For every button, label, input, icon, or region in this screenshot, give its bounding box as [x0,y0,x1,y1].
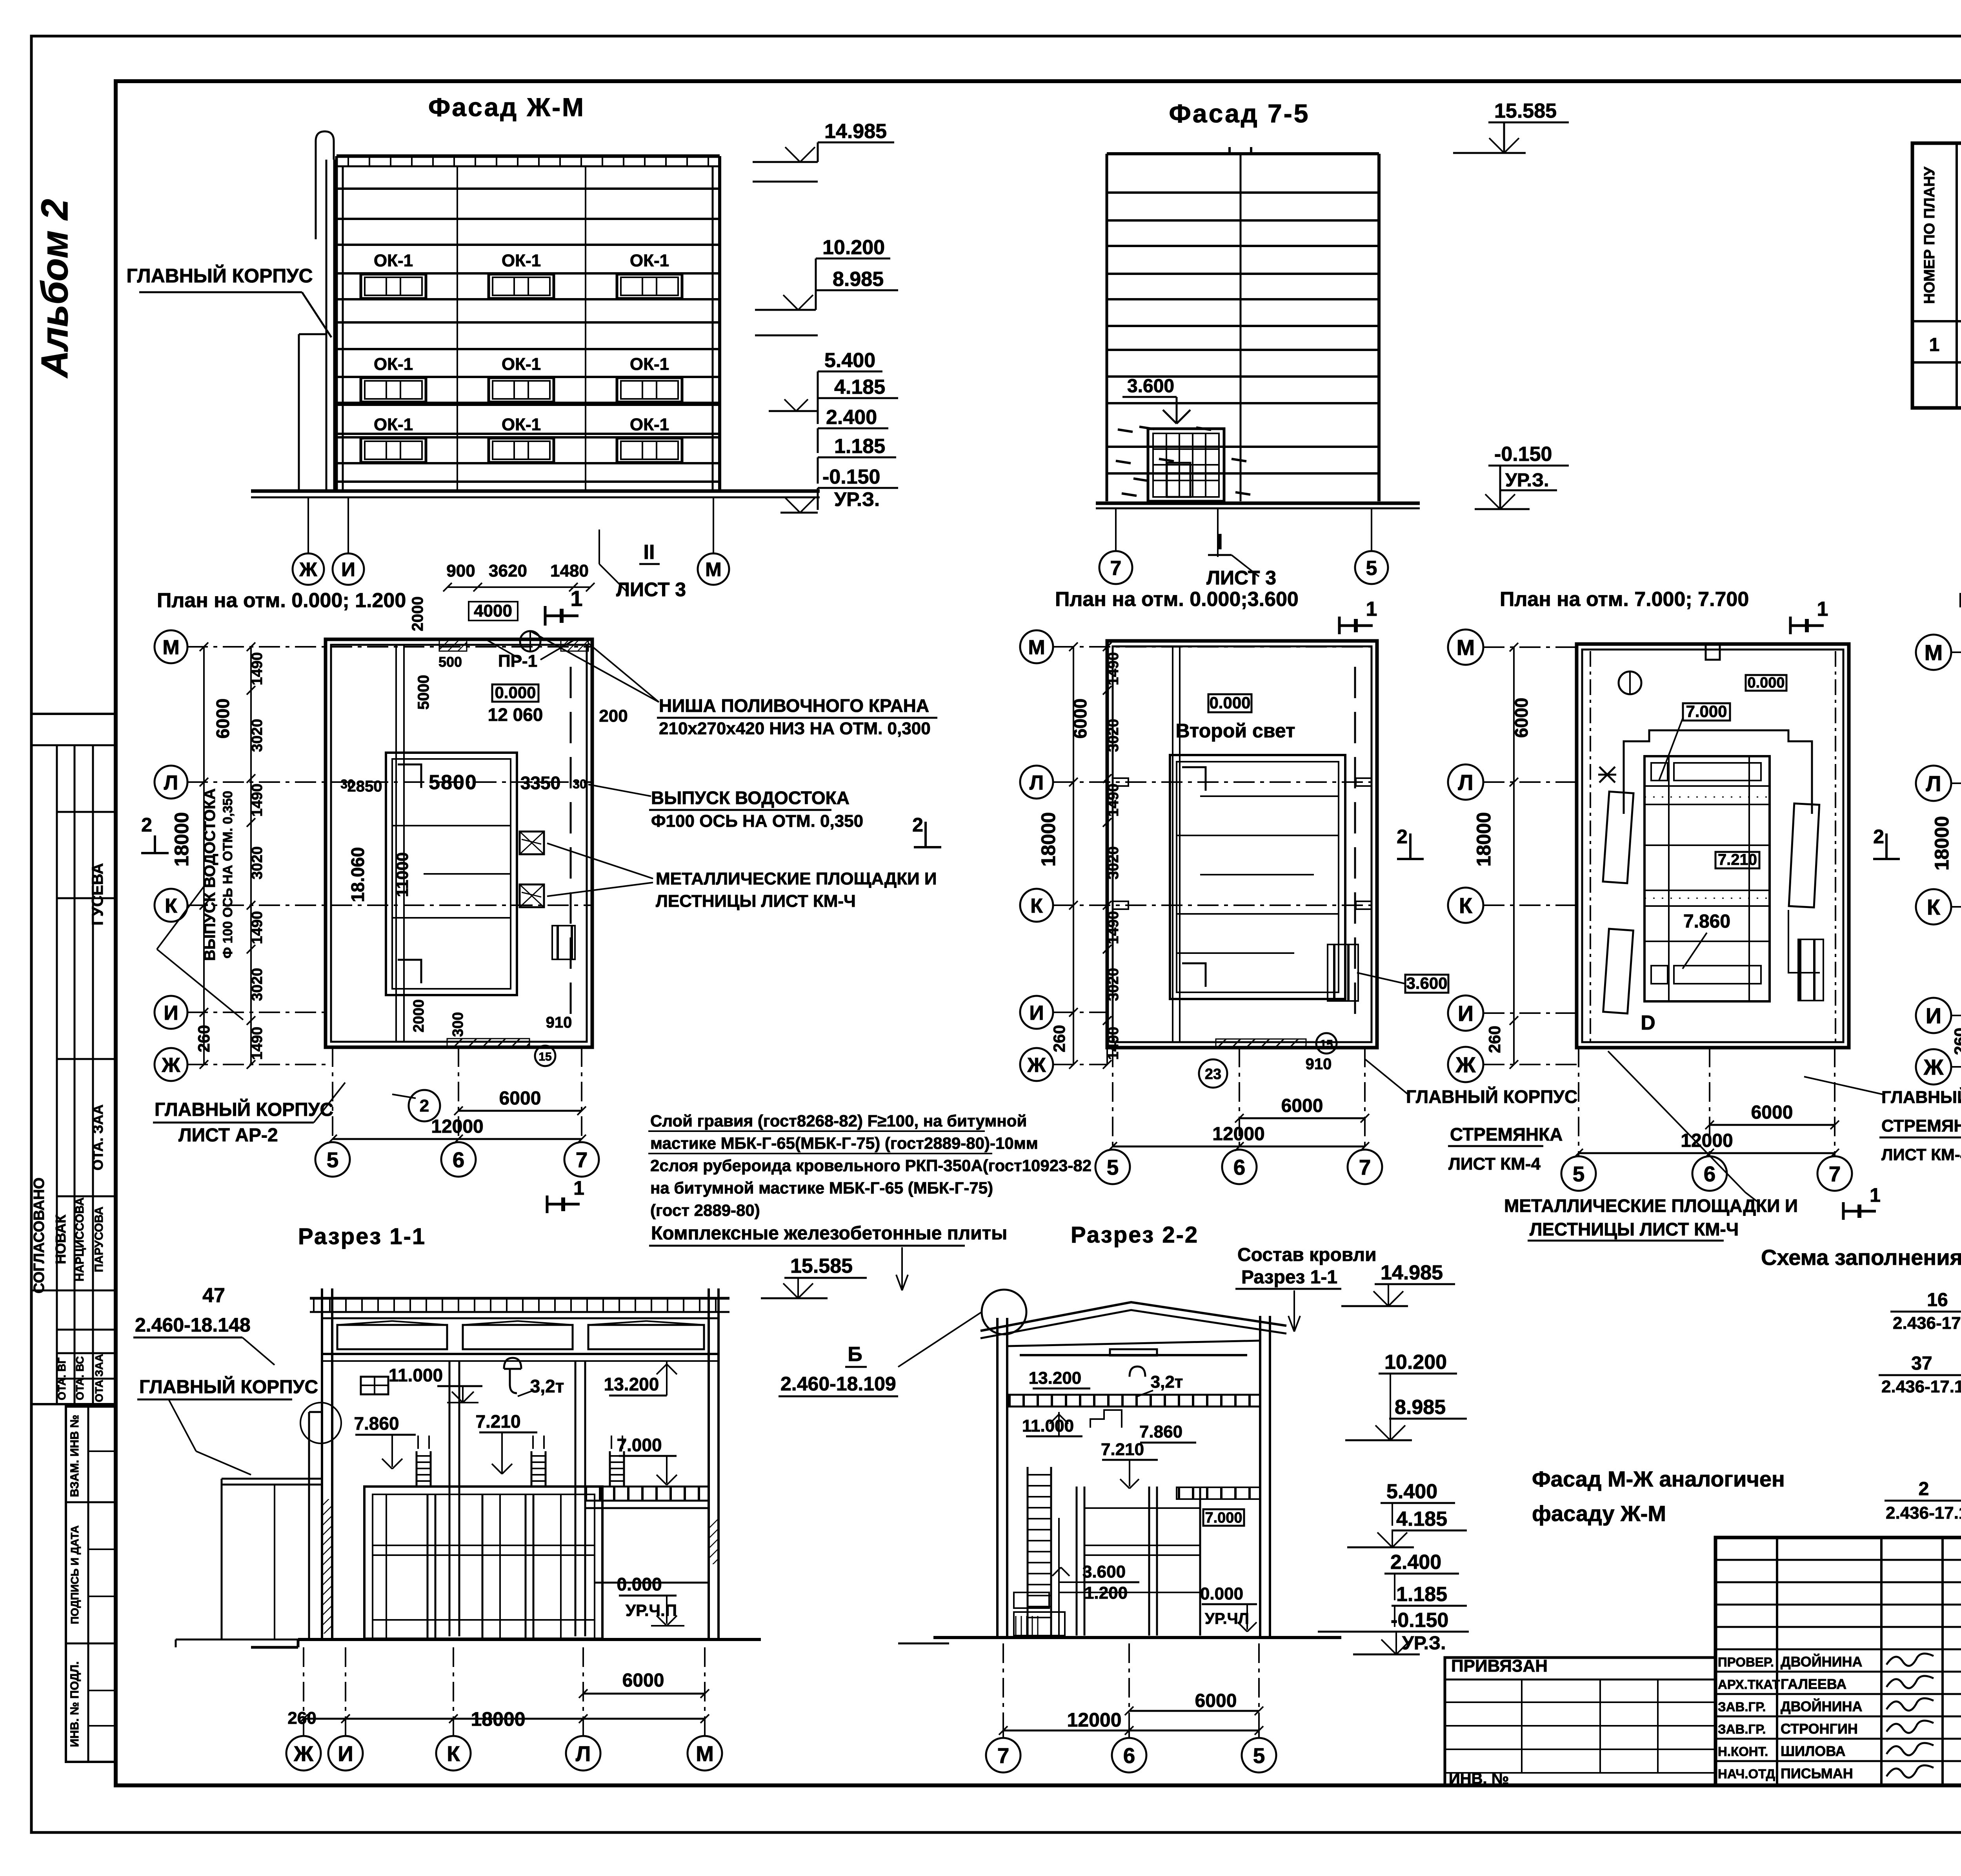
plan axis Ж [1916,1049,1951,1084]
svg-text:7.210: 7.210 [475,1411,520,1432]
svg-text:ИНВ. №: ИНВ. № [1449,1770,1509,1787]
title block left sign columns [1776,1538,1778,1785]
svg-text:5000: 5000 [415,675,432,710]
svg-text:7: 7 [1359,1155,1371,1179]
svg-text:ПИСЬМАН: ПИСЬМАН [1781,1765,1853,1781]
svg-text:7.860: 7.860 [1683,911,1730,932]
plan2 circled 23 [1199,1059,1227,1088]
svg-text:37: 37 [1911,1353,1932,1374]
svg-text:Состав кровли: Состав кровли [1237,1245,1377,1265]
svg-text:ОК-1: ОК-1 [374,415,413,434]
svg-text:1.200: 1.200 [1084,1583,1128,1603]
svg-text:7.210: 7.210 [1101,1440,1144,1459]
section1 left adjacent building [222,1478,322,1480]
svg-text:2: 2 [1873,826,1884,848]
svg-text:6000: 6000 [1281,1095,1323,1116]
svg-text:М: М [705,559,722,580]
svg-text:ЛИСТ КМ-4: ЛИСТ КМ-4 [1881,1145,1961,1164]
svg-text:Ж: Ж [1027,1054,1046,1077]
svg-text:11000: 11000 [393,852,411,897]
svg-text:11.000: 11.000 [1022,1416,1074,1436]
svg-text:План на отм. 0.000;3.600: План на отм. 0.000;3.600 [1055,588,1299,611]
svg-text:10.200: 10.200 [822,236,885,259]
svg-text:1490: 1490 [249,911,266,944]
svg-text:Слой гравия (гост8268-82) F≥10: Слой гравия (гост8268-82) F≥100, на биту… [650,1112,1027,1130]
plan axis К [155,889,187,922]
svg-text:15.585: 15.585 [790,1255,853,1277]
svg-text:М: М [162,636,179,659]
svg-text:3350: 3350 [520,773,560,793]
svg-text:1490: 1490 [249,1027,266,1060]
svg-text:ЗАВ.ГР.: ЗАВ.ГР. [1718,1722,1766,1736]
svg-text:300: 300 [450,1012,466,1037]
svg-text:И: И [164,1002,178,1024]
section2 detail circle [982,1290,1026,1334]
svg-text:6000: 6000 [1195,1690,1237,1711]
svg-text:фасаду Ж-М: фасаду Ж-М [1532,1501,1666,1526]
svg-text:2.400: 2.400 [826,406,877,429]
svg-text:МЕТАЛЛИЧЕСКИЕ ПЛОЩАДКИ И: МЕТАЛЛИЧЕСКИЕ ПЛОЩАДКИ И [656,869,937,888]
svg-text:Разрез 1-1: Разрез 1-1 [1241,1267,1337,1288]
svg-text:11.000: 11.000 [389,1365,443,1385]
facade window row [337,272,720,275]
svg-text:ОК-1: ОК-1 [502,355,541,374]
svg-text:I: I [1217,529,1223,554]
plan2 building walls [1107,641,1377,1048]
plan axis И [1020,996,1053,1029]
svg-text:ВЫПУСК ВОДОСТОКА: ВЫПУСК ВОДОСТОКА [201,788,218,961]
svg-text:ПОДПИСЬ И ДАТА: ПОДПИСЬ И ДАТА [69,1525,81,1624]
left stamp table upper [31,714,116,1404]
svg-text:ОК-1: ОК-1 [630,355,669,374]
svg-text:ЗАВ.ГР.: ЗАВ.ГР. [1718,1699,1766,1714]
svg-text:План на отм. 11.000: План на отм. 11.000 [1958,589,1961,612]
svg-text:ПРИВЯЗАН: ПРИВЯЗАН [1451,1656,1548,1676]
plan1 bottom circled 2 [409,1090,440,1121]
plan2 wall pilasters [1113,778,1128,786]
svg-text:Альбом 2: Альбом 2 [34,199,76,378]
svg-text:К: К [447,1741,460,1766]
svg-text:ОТА ЗАА: ОТА ЗАА [93,1354,105,1402]
plan3 left tilted platforms [1603,792,1634,883]
svg-text:0.000: 0.000 [1747,675,1785,691]
plan bottom axes 5 6 7 [1578,1048,1579,1156]
svg-text:7: 7 [576,1148,588,1172]
plan axis И [155,996,187,1029]
svg-text:ПРОВЕР.: ПРОВЕР. [1718,1655,1774,1669]
svg-text:5: 5 [1253,1743,1265,1768]
section1 wall hatching [323,1499,332,1634]
plan axis Ж [1448,1047,1483,1082]
svg-text:ЛИСТ АР-2: ЛИСТ АР-2 [178,1125,278,1146]
facade Ж-М drainpipe [326,160,327,491]
svg-text:0.000: 0.000 [1209,693,1250,712]
svg-text:2.436-17.1-020: 2.436-17.1-020 [1886,1503,1961,1523]
svg-text:4.185: 4.185 [1396,1508,1447,1530]
svg-text:НАЧ.ОТД.: НАЧ.ОТД. [1718,1767,1779,1781]
plan1 basin [386,753,517,995]
svg-text:2.436-17.1-050: 2.436-17.1-050 [1893,1314,1961,1333]
svg-text:900: 900 [446,561,475,580]
svg-text:210х270х420 НИЗ НА ОТМ. 0,300: 210х270х420 НИЗ НА ОТМ. 0,300 [659,719,931,738]
svg-text:2.460-18.148: 2.460-18.148 [135,1314,251,1336]
svg-text:2: 2 [141,814,152,836]
plan3 title section mark [1789,617,1792,634]
svg-text:ОК-1: ОК-1 [502,415,541,434]
svg-text:Ф100 ОСЬ НА ОТМ. 0,350: Ф100 ОСЬ НА ОТМ. 0,350 [651,812,863,831]
facade 7-5 axis 7 [1115,508,1117,551]
plan1 right interior dashed line [570,667,572,1020]
svg-text:3.600: 3.600 [1406,974,1447,992]
facade axis И [347,497,349,553]
svg-text:3.600: 3.600 [1082,1562,1126,1581]
svg-text:1: 1 [573,1177,584,1199]
svg-text:910: 910 [546,1014,572,1031]
svg-text:ЛИСТ 3: ЛИСТ 3 [616,579,686,600]
svg-text:14.985: 14.985 [1381,1261,1443,1284]
section2 roof gable [980,1302,1286,1331]
svg-text:5.400: 5.400 [1386,1480,1437,1503]
facade 7-5 axis 5 [1371,508,1372,551]
svg-text:13.200: 13.200 [604,1374,659,1394]
svg-text:Л: Л [576,1741,591,1766]
svg-text:6: 6 [1704,1162,1716,1186]
svg-text:ГЛАВНЫЙ КОРПУС: ГЛАВНЫЙ КОРПУС [139,1376,318,1397]
section2 7.000 box [1203,1509,1244,1526]
svg-text:260: 260 [1485,1026,1504,1053]
svg-text:5: 5 [1573,1162,1585,1186]
svg-text:2.400: 2.400 [1390,1551,1441,1574]
explication table [1912,143,1961,408]
plan4 axis lines [1951,651,1961,653]
svg-text:2.436-17.1-130: 2.436-17.1-130 [1881,1377,1961,1396]
svg-text:План на отм. 0.000; 1.200: План на отм. 0.000; 1.200 [157,589,406,612]
svg-text:16: 16 [1927,1290,1948,1310]
svg-text:260: 260 [287,1709,316,1728]
svg-text:7.860: 7.860 [1139,1422,1182,1441]
svg-text:0.000: 0.000 [1200,1584,1243,1603]
svg-text:8.985: 8.985 [1395,1396,1446,1419]
plan1 left dim chain [203,647,205,1064]
plan3 platform 7.000 outline [1624,730,1812,814]
svg-text:15: 15 [538,1050,551,1063]
plan axis К [1448,888,1483,923]
plan3 wall axis dashdot verticals [1590,651,1591,1043]
svg-text:1480: 1480 [550,561,589,580]
svg-text:ВЫПУСК ВОДОСТОКА: ВЫПУСК ВОДОСТОКА [651,788,850,808]
svg-text:-0.150: -0.150 [822,466,880,488]
svg-text:3.600: 3.600 [1127,376,1174,397]
svg-text:6000: 6000 [1070,699,1090,739]
facade 7-5 top tick [1228,147,1231,154]
svg-text:18000: 18000 [1037,812,1059,866]
plan2 3.600 label [1405,975,1448,993]
plan3 axis lines [1483,646,1577,648]
plan2 stair [1328,944,1358,1001]
section2 extra floors [1084,1507,1200,1509]
facade 7-5 ground [1096,502,1420,505]
svg-text:ШИЛОВА: ШИЛОВА [1781,1743,1846,1759]
svg-text:Ж: Ж [1923,1055,1944,1079]
plan axis К [1916,889,1951,924]
svg-text:2: 2 [912,814,923,836]
section1 columns [449,1361,451,1636]
svg-text:Ж: Ж [299,559,317,580]
svg-text:6000: 6000 [622,1670,664,1691]
plan2 circled 15 [1316,1033,1337,1054]
svg-text:НОМЕР ПО ПЛАНУ: НОМЕР ПО ПЛАНУ [1921,167,1938,304]
svg-text:Ф 100 ОСЬ НА ОТМ. 0,350: Ф 100 ОСЬ НА ОТМ. 0,350 [220,791,235,959]
plan2 title section mark [1338,617,1341,634]
svg-text:К: К [1030,895,1043,917]
plan1 level labels [492,684,538,702]
facade 7-5 door [1148,429,1224,501]
plan2 dim chain [1073,647,1074,1064]
facade window row [337,376,720,378]
plan3 right platform [1789,804,1819,908]
svg-text:ГЛАВНЫЙ КОРПУС: ГЛАВНЫЙ КОРПУС [126,264,313,287]
plan3 labels [1746,675,1786,691]
svg-text:2: 2 [1919,1479,1929,1499]
plan1 top dims [448,586,590,588]
svg-text:3020: 3020 [249,968,266,1001]
plan axis Л [1020,766,1053,799]
svg-text:ЛЕСТНИЦЫ ЛИСТ КМ-Ч: ЛЕСТНИЦЫ ЛИСТ КМ-Ч [656,892,856,911]
svg-text:5: 5 [327,1148,339,1172]
plan2 inner wall line [1172,646,1173,1042]
plan axis Л [1448,764,1483,800]
svg-text:ГЛАВНЫЙ КОРПУС: ГЛАВНЫЙ КОРПУС [1406,1086,1577,1107]
section1 roof trusses [337,1325,447,1349]
svg-text:АРХ.ТКАТ: АРХ.ТКАТ [1718,1677,1780,1692]
svg-text:Ж: Ж [162,1054,181,1077]
svg-text:12000: 12000 [1067,1709,1121,1731]
section mark 1 below plan1 [546,1195,549,1213]
facade 7-5 brick dashes [1118,429,1133,432]
plan1 hatched bottom wall [447,1039,529,1048]
svg-text:И: И [338,1741,353,1766]
svg-text:4000: 4000 [474,601,512,620]
svg-text:ДВОЙНИНА: ДВОЙНИНА [1781,1698,1863,1714]
svg-text:ОТА. ВГ: ОТА. ВГ [56,1357,68,1400]
svg-text:М: М [1028,636,1045,659]
plan axis К [1020,889,1053,922]
section1 tank [364,1487,602,1639]
svg-text:1: 1 [1817,598,1828,620]
svg-text:на битумной мастике МБК-Г-65 (: на битумной мастике МБК-Г-65 (МБК-Г-75) [650,1179,993,1197]
svg-text:10.200: 10.200 [1384,1351,1447,1374]
facade axis М [713,497,714,553]
svg-text:ОК-1: ОК-1 [630,415,669,434]
svg-text:7.000: 7.000 [1686,702,1727,721]
svg-text:ОТА. ВС: ОТА. ВС [74,1356,86,1400]
svg-text:3620: 3620 [489,561,527,580]
svg-text:К: К [1459,893,1473,918]
svg-text:15.585: 15.585 [1494,100,1557,122]
svg-text:И: И [1926,1003,1941,1028]
svg-text:6: 6 [453,1148,465,1172]
section2 floor band 11.0 [1007,1395,1260,1407]
svg-text:ГУСЕВА: ГУСЕВА [89,863,106,926]
svg-text:Фасад 7-5: Фасад 7-5 [1169,99,1310,128]
plan bottom axes 5 6 7 [332,1047,333,1142]
svg-text:7: 7 [1110,557,1122,580]
svg-text:СТРЕМЯНКА: СТРЕМЯНКА [1450,1124,1563,1145]
svg-text:200: 200 [599,706,628,726]
plan3 top notch [1706,644,1720,660]
svg-text:5: 5 [1366,557,1377,580]
svg-text:(гост 2889-80): (гост 2889-80) [650,1201,760,1219]
svg-text:12000: 12000 [431,1116,483,1137]
svg-text:6000: 6000 [1751,1102,1793,1123]
svg-text:НОВАК: НОВАК [53,1214,69,1264]
svg-text:Фасад М-Ж аналогичен: Фасад М-Ж аналогичен [1532,1467,1785,1491]
svg-text:14.985: 14.985 [824,120,887,143]
section2 platform right [1177,1487,1260,1499]
facade window row [337,436,720,439]
svg-text:5.400: 5.400 [824,349,875,372]
svg-text:910: 910 [1306,1055,1332,1073]
svg-text:И: И [1029,1002,1044,1024]
svg-text:260: 260 [1050,1025,1068,1052]
svg-text:2: 2 [1397,826,1408,848]
facade Ж-М building [337,155,720,158]
plan1 axis lines [187,646,592,648]
svg-text:23: 23 [1205,1066,1221,1083]
svg-text:УР.З.: УР.З. [1402,1633,1446,1654]
plan2 axis lines [1053,646,1377,648]
section1 bottom axis circles [303,1647,304,1719]
svg-text:260: 260 [1951,1028,1961,1055]
plan3 stair [1798,939,1823,1001]
svg-text:13.200: 13.200 [1029,1368,1082,1388]
svg-text:7: 7 [997,1743,1010,1768]
svg-text:ОК-1: ОК-1 [630,251,669,270]
svg-text:Второй свет: Второй свет [1175,720,1295,742]
section2 walls [996,1318,999,1638]
svg-text:Л: Л [164,772,178,794]
svg-text:мастике МБК-Г-65(МБК-Г-75) (го: мастике МБК-Г-65(МБК-Г-75) (гост2889-80)… [650,1134,1038,1152]
plan axis М [1448,630,1483,665]
svg-text:ЛИСТ КМ-4: ЛИСТ КМ-4 [1448,1154,1541,1174]
plan3 central block [1644,756,1770,1001]
svg-text:ГЛАВНЫЙ КОРПУС: ГЛАВНЫЙ КОРПУС [155,1099,333,1120]
svg-text:3020: 3020 [249,719,266,752]
plan axis М [1916,635,1951,670]
svg-text:УР.З.: УР.З. [1505,470,1549,491]
section1 floor0 right [595,1582,709,1584]
section1 roof band [310,1297,729,1300]
plan axis М [155,630,187,663]
plan2 right interior dashed line [1354,667,1356,1020]
svg-text:Разрез 1-1: Разрез 1-1 [298,1224,426,1249]
plan1 top wall niches [439,640,467,651]
svg-text:II: II [644,541,655,564]
svg-text:1.185: 1.185 [1396,1583,1447,1606]
svg-text:18000: 18000 [1473,812,1495,866]
plan axis Ж [155,1048,187,1081]
svg-text:6: 6 [1233,1155,1246,1179]
section1 ground [251,1646,298,1649]
svg-text:М: М [1457,635,1475,660]
plan1 stair [552,926,575,959]
detail mark I list 3 [1217,508,1219,557]
svg-text:5: 5 [1107,1155,1119,1179]
svg-text:Фасад Ж-М: Фасад Ж-М [428,93,585,122]
svg-text:30: 30 [340,777,355,791]
svg-text:2.460-18.109: 2.460-18.109 [780,1373,896,1395]
svg-text:1490: 1490 [249,784,266,817]
svg-text:2000: 2000 [409,597,426,631]
plan1 building walls [326,639,592,1047]
svg-text:И: И [341,559,355,580]
plan axis Л [155,766,187,799]
svg-text:0.000: 0.000 [617,1574,662,1594]
svg-text:8.985: 8.985 [833,268,884,291]
svg-text:ОК-1: ОК-1 [374,251,413,270]
section mark 1 below plan3 [1842,1202,1845,1220]
svg-text:6000: 6000 [213,699,233,739]
svg-text:ЛИСТ 3: ЛИСТ 3 [1206,567,1276,589]
svg-text:ПАРУСОВА: ПАРУСОВА [93,1206,106,1272]
facade 7-5 building [1107,152,1379,155]
svg-text:18.060: 18.060 [347,847,368,903]
plan axis Ж [1020,1048,1053,1081]
svg-text:УР.З.: УР.З. [834,488,880,510]
svg-text:6000: 6000 [499,1088,541,1109]
section1 platform level 7 [585,1487,709,1501]
section1 left wall [321,1288,323,1639]
facade axis Ж [307,497,309,553]
svg-text:К: К [1927,895,1941,919]
svg-text:3020: 3020 [249,846,266,880]
svg-text:18000: 18000 [1931,816,1953,870]
svg-text:-0.150: -0.150 [1391,1609,1448,1632]
svg-text:0.000: 0.000 [495,683,536,702]
svg-text:Ж: Ж [1455,1052,1476,1077]
svg-text:5800: 5800 [429,771,477,794]
svg-text:15: 15 [1320,1038,1333,1051]
svg-text:Ж: Ж [293,1741,313,1766]
svg-text:Н.КОНТ.: Н.КОНТ. [1718,1744,1768,1759]
svg-text:ГЛАВНЫЙ КОРПУС: ГЛАВНЫЙ КОРПУС [1881,1087,1961,1107]
svg-text:7.000: 7.000 [1205,1510,1242,1526]
svg-text:ОТА. ЗАА: ОТА. ЗАА [90,1104,106,1170]
svg-text:ОК-1: ОК-1 [374,355,413,374]
section2 inner walls [1076,1487,1078,1636]
svg-text:НИША ПОЛИВОЧНОГО КРАНА: НИША ПОЛИВОЧНОГО КРАНА [659,695,929,716]
section2 small stairs bottom [1015,1616,1017,1636]
section2 bottom axes [1002,1643,1004,1721]
svg-text:М: М [696,1741,714,1766]
section2 roof inner band [1007,1341,1260,1346]
svg-text:30: 30 [573,777,587,791]
plan axis М [1020,630,1053,663]
svg-text:6: 6 [1123,1743,1135,1768]
svg-text:1: 1 [1366,598,1377,620]
plan3 7.210 box [1715,852,1759,868]
section2 ground [933,1636,1341,1639]
svg-text:1.185: 1.185 [834,435,885,458]
plan2 hatched bottom wall [1216,1039,1306,1048]
svg-text:18000: 18000 [171,812,193,866]
svg-text:ДВОЙНИНА: ДВОЙНИНА [1781,1653,1863,1670]
svg-text:500: 500 [438,654,462,670]
section1 right wall [708,1288,710,1639]
svg-text:1: 1 [1870,1184,1881,1206]
plan3 sprinkler mark [1599,767,1615,782]
svg-text:Л: Л [1926,771,1941,796]
